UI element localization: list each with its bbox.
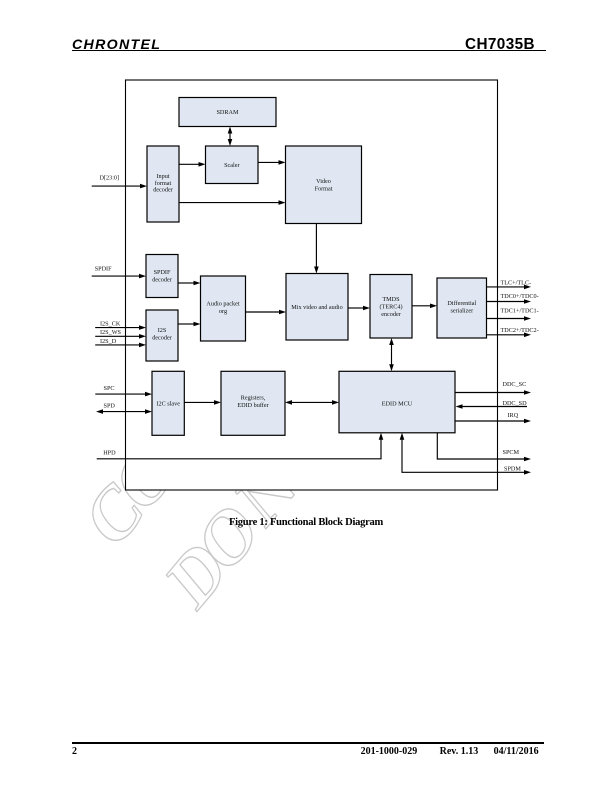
node SPD input label	[104, 403, 116, 410]
svg-text:SPDIF: SPDIF	[154, 269, 171, 276]
wire SDRAM-Scaler bidirectional	[228, 127, 233, 147]
node IRQ output label	[508, 412, 519, 419]
wire I2S_D into I2S decoder	[95, 343, 146, 348]
svg-text:EDID MCU: EDID MCU	[382, 400, 413, 407]
wire TDC0 output	[487, 299, 532, 304]
block EDID MCU	[339, 371, 455, 433]
node TDC2+/TDC2- output label	[501, 327, 539, 334]
wire Video Format down to Mix video and audio	[314, 224, 319, 274]
wire I2S decoder to Audio packet org	[178, 322, 201, 327]
svg-text:D[23:0]: D[23:0]	[100, 175, 120, 182]
wire TMDS encoder to Differential serializer	[412, 304, 437, 309]
wire SPDIF decoder to Audio packet org	[178, 281, 201, 286]
wire I2C slave to Registers	[184, 400, 221, 405]
node I2S_D input label	[100, 338, 117, 345]
wire TMDS encoder to EDID MCU bidirectional	[389, 338, 394, 371]
svg-text:Mix video and audio: Mix video and audio	[291, 304, 342, 311]
node DDC_SD label	[503, 400, 528, 407]
wire DDC_SD into EDID MCU	[456, 404, 528, 409]
svg-text:serializer: serializer	[450, 308, 473, 315]
svg-text:SPC: SPC	[104, 385, 115, 392]
node D[23:0] input label	[100, 175, 120, 182]
wire HPD into EDID MCU bottom	[97, 433, 384, 459]
svg-text:Video: Video	[316, 178, 331, 185]
node TDC1+/TDC1- output label	[501, 308, 539, 315]
svg-text:TDC2+/TDC2-: TDC2+/TDC2-	[501, 327, 539, 334]
node I2S_WS input label	[100, 329, 122, 336]
node SPDIF input label	[95, 265, 112, 272]
svg-text:I2C slave: I2C slave	[156, 400, 180, 407]
wire Input format decoder to Video Format	[179, 200, 286, 205]
block Differential serializer	[437, 278, 487, 338]
wire D[23:0] into Input format decoder	[92, 184, 147, 189]
wire Input format decoder to Scaler	[179, 162, 206, 167]
wire DDC_SC output	[455, 390, 531, 395]
svg-text:SDRAM: SDRAM	[216, 109, 239, 116]
header part number CH7035B	[465, 36, 535, 54]
svg-text:SPDIF: SPDIF	[95, 265, 112, 272]
node SPC input label	[104, 385, 115, 392]
svg-text:org: org	[219, 308, 227, 315]
svg-text:I2S_WS: I2S_WS	[100, 329, 122, 336]
node SPDM label	[504, 465, 521, 472]
node I2S_CK input label	[100, 320, 121, 327]
node SPCM output label	[503, 449, 520, 456]
svg-text:SPD: SPD	[104, 403, 116, 410]
block Audio packet org	[201, 276, 246, 341]
svg-text:DDC_SC: DDC_SC	[503, 381, 527, 388]
wire SPD bidirectional into I2C slave	[96, 409, 152, 414]
svg-text:(TERC4): (TERC4)	[379, 304, 402, 311]
wire TDC1 output	[487, 316, 532, 321]
wire I2S_CK into I2S decoder	[95, 325, 146, 330]
block I2S decoder	[146, 310, 178, 361]
header rule	[72, 50, 546, 51]
wire IRQ output	[455, 419, 531, 424]
block Input format decoder	[147, 146, 179, 222]
block Video Format	[286, 146, 362, 224]
svg-text:SPCM: SPCM	[503, 449, 520, 456]
block Registers, EDID buffer	[221, 371, 285, 435]
svg-text:Format: Format	[315, 186, 333, 193]
svg-text:I2S: I2S	[158, 327, 167, 334]
svg-text:Audio packet: Audio packet	[206, 301, 239, 308]
block SPDIF decoder	[146, 255, 178, 298]
wire SPCM from EDID MCU bottom	[437, 433, 531, 462]
wire I2S_WS into I2S decoder	[95, 334, 146, 339]
svg-text:Registers,: Registers,	[241, 395, 266, 402]
svg-text:decoder: decoder	[152, 276, 172, 283]
node HPD input label	[103, 449, 116, 456]
svg-text:SPDM: SPDM	[504, 465, 521, 472]
svg-text:TDC0+/TDC0-: TDC0+/TDC0-	[501, 293, 539, 300]
wire TLC output	[487, 285, 532, 290]
svg-text:Differential: Differential	[447, 300, 476, 307]
svg-text:EDID buffer: EDID buffer	[237, 402, 268, 409]
header logo CHRONTEL	[72, 37, 161, 53]
svg-text:encoder: encoder	[381, 311, 401, 318]
block SDRAM	[179, 98, 276, 127]
wire SPC into I2C slave	[95, 392, 152, 397]
svg-text:Scaler: Scaler	[224, 162, 239, 169]
wire SPDM bidirectional to EDID MCU bottom	[400, 433, 531, 475]
footer document number and revision	[361, 746, 541, 757]
svg-text:TMDS: TMDS	[382, 296, 400, 303]
block Scaler	[206, 146, 259, 184]
block Mix video and audio	[286, 274, 348, 341]
wire SPDIF into SPDIF decoder	[92, 274, 146, 279]
svg-text:IRQ: IRQ	[508, 412, 519, 419]
node DDC_SC output label	[503, 381, 527, 388]
figure caption	[0, 517, 612, 528]
wire Registers to EDID MCU bidirectional	[285, 400, 339, 405]
footer page number	[72, 746, 77, 757]
node TLC+/TLC- output label	[501, 280, 532, 287]
node TDC0+/TDC0- output label	[501, 293, 539, 300]
wire Mix video and audio to TMDS encoder	[348, 306, 370, 311]
outer frame	[126, 80, 498, 490]
wire Scaler to Video Format	[258, 160, 286, 165]
svg-text:decoder: decoder	[153, 187, 173, 194]
wire TDC2 output	[487, 333, 532, 338]
svg-text:I2S_D: I2S_D	[100, 338, 117, 345]
svg-text:decoder: decoder	[152, 334, 172, 341]
footer rule	[72, 742, 544, 744]
watermark CONFIDENTIAL / DO NOT COPY	[72, 125, 505, 644]
svg-text:TDC1+/TDC1-: TDC1+/TDC1-	[501, 308, 539, 315]
svg-text:I2S_CK: I2S_CK	[100, 320, 121, 327]
block TMDS (TERC4) encoder	[370, 275, 412, 339]
svg-text:HPD: HPD	[103, 449, 116, 456]
wire Audio packet org to Mix video and audio	[246, 310, 287, 315]
block I2C slave	[152, 371, 184, 435]
